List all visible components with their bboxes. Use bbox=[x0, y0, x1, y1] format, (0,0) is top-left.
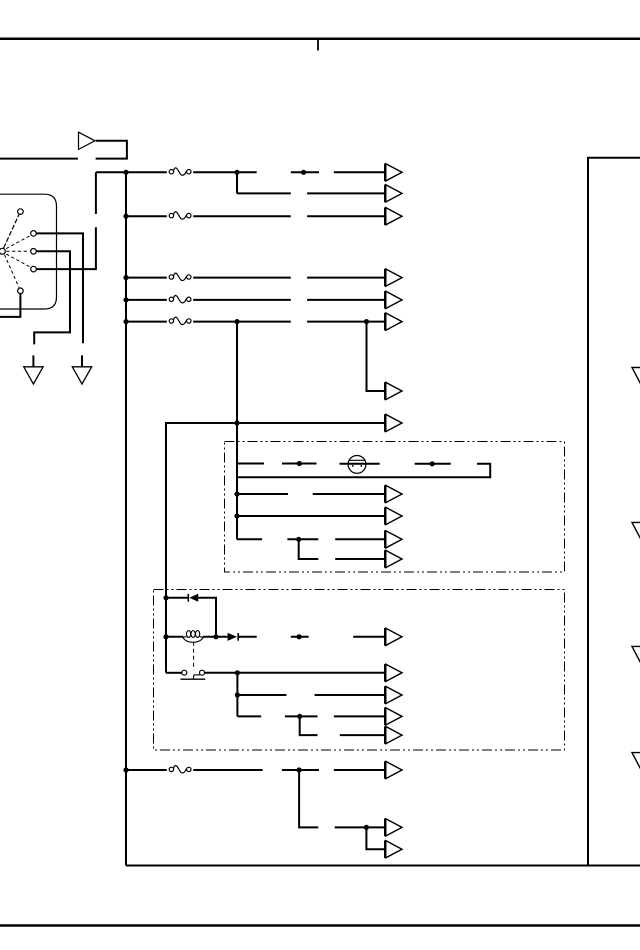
switch SW1 wiper arm bbox=[4, 215, 19, 249]
row DB1-3 wire to arrow bbox=[313, 493, 385, 495]
connector triangle T1 right edge bbox=[632, 368, 640, 396]
node relay supply junction dot bbox=[163, 595, 168, 600]
node bus-P junction dot bbox=[123, 767, 128, 772]
switch SW1 pivot contact bbox=[0, 248, 5, 254]
row DB1-1 inline connector segment bbox=[282, 463, 317, 465]
row DB1-5 inline connector pin dot bbox=[296, 537, 301, 542]
relay K1 coil bbox=[183, 631, 204, 643]
switch SW1 dashed throw to P2 bbox=[6, 236, 30, 249]
row B wire to arrow bbox=[307, 192, 384, 194]
row DB1-1 inline connector segment 2 bbox=[415, 463, 451, 465]
row DB1-3 wire left bbox=[237, 493, 288, 495]
row E wire to arrow bbox=[307, 299, 384, 301]
node bus-E junction dot bbox=[123, 297, 128, 302]
connector arrow row R bbox=[384, 840, 402, 858]
wire branch DB2-4 down to DB2-5 bbox=[300, 716, 318, 735]
wire from SW1 P4 riser lower bbox=[37, 227, 96, 269]
row DB1-5 inline connector segment bbox=[287, 538, 318, 540]
wire bottom bus to junction block bbox=[126, 865, 640, 867]
row A inline connector pin dot bbox=[301, 170, 306, 175]
row DB2-4 inline connector segment bbox=[285, 715, 318, 717]
row K1 inline connector segment bbox=[291, 636, 309, 638]
row DB1-5 wire to arrow bbox=[335, 538, 384, 540]
relay K1 contact bar link tick bbox=[193, 675, 195, 679]
wire from SW1 P5 exiting left bbox=[0, 294, 20, 317]
diode D1 body bbox=[189, 594, 198, 602]
node Q junction dot bbox=[364, 825, 369, 830]
junction block J/B outline bbox=[588, 158, 640, 865]
node H junction dot bbox=[234, 420, 239, 425]
relay K1 contact terminal left bbox=[182, 670, 187, 675]
wire coil to diode D2 bbox=[203, 636, 227, 638]
relay K1 movable contact bar bbox=[181, 678, 206, 680]
border bottom line bbox=[0, 924, 640, 927]
row Q wire to arrow bbox=[335, 826, 385, 828]
row DB1-4 wire bbox=[237, 515, 384, 517]
row DB1-1 wire through lamp bbox=[340, 463, 380, 465]
row DB2-3 wire to arrow bbox=[315, 694, 385, 696]
diode D2 cathode bar bbox=[237, 633, 239, 641]
wire from SW1 P4 riser upper bbox=[95, 172, 97, 214]
row C wire to arrow bbox=[307, 215, 384, 217]
row A wire left of fuse bbox=[96, 171, 167, 173]
switch SW1 contact P3 bbox=[31, 249, 37, 255]
diode D1 cathode bar bbox=[187, 594, 189, 602]
row B wire left bbox=[237, 192, 291, 194]
node contact out junction dot bbox=[235, 670, 240, 675]
switch SW1 contact P2 bbox=[31, 231, 37, 237]
switch SW1 contact P1 bbox=[18, 209, 24, 215]
row DB2-4 wire left stub bbox=[237, 715, 261, 717]
row P wire to arrow bbox=[334, 769, 385, 771]
switch SW1 contact P5 bbox=[18, 288, 24, 294]
fusible link F3 bbox=[169, 273, 191, 280]
row DB1-1 inline connector pin dot bbox=[297, 461, 302, 466]
row F wire right of fuse bbox=[193, 321, 291, 323]
row DB2-3 wire left bbox=[237, 694, 286, 696]
connector arrow row E bbox=[384, 291, 402, 309]
node F-branch junction dot bbox=[234, 319, 239, 324]
switch SW1 contact P4 bbox=[31, 266, 37, 272]
row P inline connector segment bbox=[282, 769, 319, 771]
row A inline connector segment bbox=[291, 171, 319, 173]
dashed component box DB2 bbox=[154, 590, 565, 751]
switch SW1 dashed throw to P3 bbox=[6, 250, 29, 252]
connector arrow row DB2-5 bbox=[384, 726, 402, 744]
row DB1-5 wire left stub bbox=[237, 538, 262, 540]
row DB2-4 wire to arrow bbox=[334, 715, 385, 717]
fusible link F5 bbox=[169, 317, 191, 324]
switch SW1 dashed throw to P4 bbox=[6, 254, 30, 267]
row D wire to arrow bbox=[307, 277, 384, 279]
row DB1-1 return loop wire bbox=[237, 464, 490, 478]
rotary switch SW1 housing bbox=[0, 194, 57, 309]
row K1 wire to arrow bbox=[353, 636, 384, 638]
connector arrow row DB1-5 bbox=[384, 531, 402, 549]
wire feed from left at node B+ bbox=[0, 158, 78, 160]
connector arrow row K1 bbox=[384, 628, 402, 646]
row E wire left of fuse bbox=[126, 299, 167, 301]
row DB1-1 inline connector pin dot 2 bbox=[430, 461, 435, 466]
row C wire right of fuse bbox=[193, 215, 291, 217]
wire branch F down to row G bbox=[367, 322, 385, 391]
main bus wire vertical bbox=[125, 172, 127, 865]
row DB2-5 wire to arrow bbox=[340, 734, 385, 736]
wire to diode D1 bbox=[166, 597, 188, 599]
node bus-A junction dot bbox=[123, 170, 128, 175]
row DB2-4 inline connector pin dot bbox=[297, 714, 302, 719]
connector arrow row G bbox=[384, 382, 402, 400]
wire branch contact-out down bbox=[236, 673, 238, 717]
relay K1 contact hinge tick bbox=[194, 674, 200, 676]
row D wire left of fuse bbox=[126, 277, 167, 279]
relay K1 contact terminal right bbox=[200, 670, 205, 675]
switch SW1 dashed throw to P5 bbox=[5, 255, 20, 288]
wire branch P down to row Q bbox=[299, 770, 318, 827]
top center tick mark bbox=[317, 39, 319, 51]
row P wire left of fuse bbox=[126, 769, 167, 771]
connector arrow row Q bbox=[384, 819, 402, 837]
row A wire right of fuse bbox=[193, 171, 257, 173]
connector arrow row P bbox=[384, 761, 402, 779]
wire branch A to B bbox=[236, 172, 238, 193]
connector arrow row DB1-4 bbox=[384, 507, 402, 525]
fusible link F6 bbox=[169, 766, 191, 773]
row E wire right of fuse bbox=[193, 299, 291, 301]
wire from arrow A1 loop bbox=[96, 141, 127, 159]
wire from diode D2 bbox=[238, 636, 257, 638]
fusible link F4 bbox=[169, 295, 191, 302]
border top line bbox=[0, 37, 640, 40]
wire from diode D1 to coil node bbox=[198, 598, 216, 637]
wire branch F down to row H bbox=[236, 322, 238, 423]
wire to relay contact bbox=[166, 672, 182, 674]
row H wire bbox=[166, 423, 384, 673]
row F wire left of fuse bbox=[126, 321, 167, 323]
node F-right-branch junction dot bbox=[364, 319, 369, 324]
diode D2 body bbox=[228, 633, 237, 641]
node coil-D1 junction dot bbox=[213, 634, 218, 639]
wire branch Q down to row R bbox=[366, 827, 384, 849]
connector arrow row D bbox=[384, 269, 402, 287]
fusible link F2 bbox=[169, 212, 191, 219]
row DB1-6 wire to arrow bbox=[335, 558, 384, 560]
connector arrow row DB2-3 bbox=[384, 686, 402, 704]
node relay coil junction dot bbox=[163, 634, 168, 639]
node DB1-4 junction dot bbox=[234, 513, 239, 518]
wire relay contact to arrow row bbox=[205, 672, 385, 674]
lamp L1 symbol bbox=[348, 456, 366, 474]
connector arrow row F bbox=[384, 313, 402, 331]
connector arrow row DB1-3 bbox=[384, 485, 402, 503]
node bus-C junction dot bbox=[123, 214, 128, 219]
node DB1-3 junction dot bbox=[234, 491, 239, 496]
row K1 inline connector pin dot bbox=[297, 634, 302, 639]
wire from SW1 P2 to ground G2 bbox=[37, 233, 84, 343]
connector triangle T3 right edge bbox=[632, 646, 640, 674]
wire branch DB1-5 down to DB1-6 bbox=[299, 539, 319, 559]
connector arrow row B bbox=[384, 185, 402, 203]
connector arrow row C bbox=[384, 207, 402, 225]
row P wire right of fuse bbox=[193, 769, 262, 771]
row D wire right of fuse bbox=[193, 277, 291, 279]
row C wire left of fuse bbox=[126, 215, 167, 217]
wire vertical into box DB1 bbox=[236, 423, 238, 539]
wire from SW1 P3 to ground G1 bbox=[34, 251, 70, 344]
row A wire to arrow bbox=[334, 171, 385, 173]
node bus-F junction dot bbox=[123, 319, 128, 324]
connector arrow row DB1-6 bbox=[384, 550, 402, 568]
dashed component box DB1 bbox=[225, 442, 565, 573]
relay K1 actuation dashed link bbox=[193, 642, 195, 670]
ground G2 symbol bbox=[72, 355, 91, 384]
node bus-D junction dot bbox=[123, 275, 128, 280]
row DB1-1 wire left stub bbox=[237, 463, 264, 465]
connector arrow row H bbox=[384, 414, 402, 432]
connector arrow row A bbox=[384, 164, 402, 182]
connector arrow row K2 bbox=[384, 664, 402, 682]
ground G1 symbol bbox=[24, 355, 43, 384]
connector triangle T4 right edge bbox=[632, 753, 640, 781]
fusible link F1 bbox=[169, 168, 191, 175]
connector arrow row DB2-4 bbox=[384, 708, 402, 726]
connector triangle T2 right edge bbox=[632, 522, 640, 550]
node A-branch junction dot bbox=[234, 170, 239, 175]
row P inline connector pin dot bbox=[297, 767, 302, 772]
connector arrow A1 into harness bbox=[79, 132, 96, 149]
row F wire to arrow bbox=[307, 321, 384, 323]
wire to relay coil bbox=[166, 636, 183, 638]
node DB2-3 junction dot bbox=[235, 692, 240, 697]
